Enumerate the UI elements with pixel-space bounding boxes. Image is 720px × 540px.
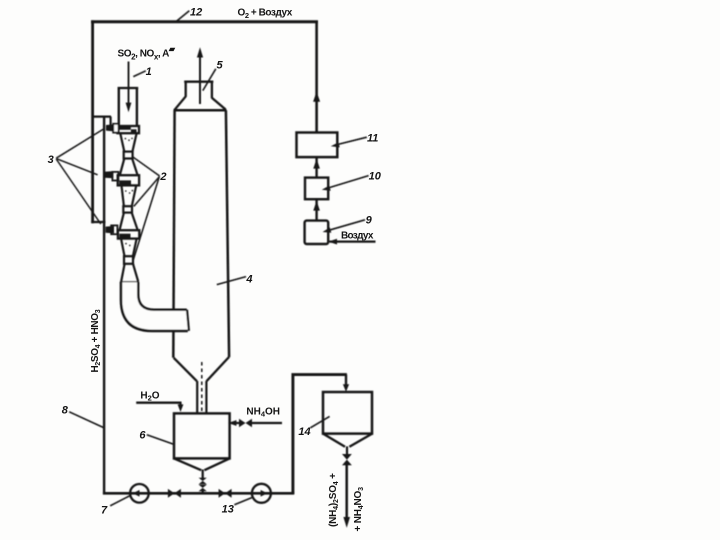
venturi stage 1 diverging cone	[120, 159, 125, 176]
wire: box10-box9 connector	[315, 199, 317, 221]
tank 14 drain valve	[342, 454, 352, 460]
svg-text:13: 13	[222, 504, 234, 516]
tank 14	[323, 392, 372, 434]
leader for 12	[176, 11, 189, 22]
pump 7	[130, 484, 149, 503]
suction valve right	[219, 489, 226, 498]
leader for 13	[234, 498, 251, 505]
svg-text:7: 7	[101, 505, 108, 517]
NH4OH feed line	[252, 422, 282, 424]
tank 6 (collection tank)	[174, 413, 230, 458]
venturi stage 2 diverging cone	[120, 213, 124, 231]
drain valve B	[199, 485, 207, 488]
leader for 8	[69, 412, 103, 428]
absorption column 4: bottom cone	[174, 358, 197, 381]
tank 6 bottom cone	[174, 459, 201, 471]
venturi throat 3	[124, 256, 133, 264]
absorption column 4: neck	[184, 81, 213, 83]
svg-text:3: 3	[48, 154, 54, 166]
box 9 (air blower)	[305, 221, 329, 244]
svg-text:Воздух: Воздух	[341, 230, 374, 241]
leaders for 3	[56, 128, 104, 158]
venturi stage 1 converging cone	[120, 134, 124, 152]
svg-text:O2 + Воздух: O2 + Воздух	[238, 7, 293, 20]
wire: box11-box10 connector	[315, 157, 317, 178]
wire: acid header / left main down to pump suction	[103, 117, 105, 494]
svg-text:+ NH4NO3: + NH4NO3	[353, 487, 365, 532]
liquid stream dashes	[201, 362, 203, 411]
elbow duct from venturi into column (white fill masks wall)	[121, 282, 189, 331]
absorption column 4: shoulders	[175, 96, 186, 110]
wire: jog of left line to acid main	[91, 221, 105, 223]
tank 14 drain stem	[346, 446, 348, 454]
svg-text:SO2, NOx, A▰: SO2, NOx, A▰	[118, 45, 176, 62]
venturi stage 1 spray box	[117, 126, 139, 133]
wire: top recycle gas pipe (12)	[91, 20, 318, 23]
absorption column 4: body	[174, 109, 227, 112]
svg-text:12: 12	[190, 7, 202, 19]
svg-text:2: 2	[159, 171, 166, 183]
svg-text:NH4OH: NH4OH	[246, 407, 280, 419]
wire: left gas downcomer	[91, 20, 94, 223]
column outlet pipe to tank 6	[196, 381, 198, 414]
svg-text:11: 11	[367, 132, 378, 144]
leaders for 2	[132, 156, 160, 176]
svg-text:(NH4)2SO4 +: (NH4)2SO4 +	[328, 473, 340, 527]
wire: drop into tank 14	[345, 375, 347, 386]
NH4OH valve	[239, 419, 246, 427]
venturi stage 2 converging cone	[122, 186, 124, 207]
product discharge arrow	[345, 465, 348, 519]
svg-text:4: 4	[245, 274, 252, 286]
wire: riser from pump 13 to tank 14	[293, 375, 347, 494]
leader for 10 (arrow)	[326, 176, 369, 189]
leader for 1	[133, 71, 146, 77]
leader for 11 (arrow)	[334, 137, 367, 145]
wire: gas feed arrow into duct	[128, 62, 130, 104]
leader for 4	[217, 277, 246, 285]
svg-text:10: 10	[369, 170, 382, 182]
svg-text:9: 9	[366, 215, 373, 227]
flange joint above elbow	[120, 281, 139, 283]
wire: bottom suction pipe	[103, 492, 294, 495]
tank 14 bottom cone	[323, 434, 345, 447]
venturi inlet duct	[118, 87, 139, 89]
leader for 5	[203, 69, 216, 91]
venturi stage 3 spray box	[118, 230, 139, 238]
svg-text:6: 6	[139, 429, 146, 441]
svg-text:H2SO4 + HNO3: H2SO4 + HNO3	[90, 309, 102, 372]
leader for 6	[147, 435, 174, 444]
venturi stage 3 diverging cone	[121, 264, 124, 282]
vent arrow 5 on column top	[199, 52, 201, 104]
leader for 14	[310, 416, 329, 427]
H2O feed line	[136, 402, 181, 404]
svg-text:5: 5	[217, 59, 224, 71]
box 10	[305, 178, 328, 200]
tank 6 drain stem	[202, 470, 204, 479]
venturi stage 2 spray box	[118, 175, 139, 185]
leader for 9 (arrow)	[327, 220, 365, 231]
box 11	[297, 133, 338, 158]
wire: air riser to top pipe	[315, 21, 318, 133]
pump 13	[252, 484, 271, 503]
nozzle 2 assembly	[105, 171, 114, 178]
leader for 7	[110, 495, 130, 505]
wire: Воздух air inlet line	[330, 241, 376, 243]
drain valve A	[199, 478, 207, 481]
nozzle 3 assembly	[106, 226, 114, 233]
nozzle 1 assembly	[93, 115, 111, 117]
venturi stage 3 converging cone	[121, 239, 124, 256]
svg-text:1: 1	[146, 66, 152, 78]
venturi throat 1	[124, 152, 133, 159]
suction valve left	[168, 489, 175, 498]
svg-text:14: 14	[298, 426, 310, 438]
venturi throat 2	[123, 206, 132, 212]
svg-text:8: 8	[62, 405, 69, 417]
svg-text:H2O: H2O	[140, 390, 159, 402]
